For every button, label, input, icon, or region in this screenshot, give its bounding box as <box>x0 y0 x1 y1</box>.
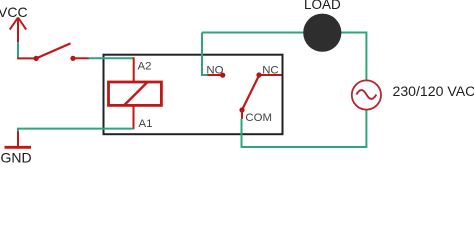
svg-text:A1: A1 <box>139 118 153 130</box>
relay pin NO <box>208 74 222 76</box>
wire A1 to GND <box>18 129 134 133</box>
relay switch lever COM to NC <box>242 76 259 111</box>
wire switch to relay A2 <box>89 57 134 59</box>
svg-text:COM: COM <box>245 112 272 124</box>
VCC power arrow symbol <box>10 18 26 44</box>
switch S1 left pin <box>17 57 36 59</box>
relay coil L1 <box>109 82 162 105</box>
wire VCC arrow to switch <box>17 42 19 58</box>
svg-text:NC: NC <box>262 65 278 77</box>
switch S1 lever <box>36 43 70 58</box>
relay pin A2 lead <box>133 57 135 83</box>
AC source sine wave <box>356 90 376 99</box>
AC source V1 circle <box>352 80 381 109</box>
svg-text:230/120 VAC: 230/120 VAC <box>393 83 474 99</box>
wire COM to AC source bottom <box>242 110 367 148</box>
svg-text:GND: GND <box>1 150 32 166</box>
LOAD lamp (filled circle) <box>303 14 341 52</box>
switch S1 right junction dot <box>70 56 75 61</box>
svg-text:NO: NO <box>206 65 223 77</box>
ground symbol stem <box>17 132 19 148</box>
svg-text:A2: A2 <box>138 61 152 73</box>
NC contact dot <box>256 72 261 77</box>
svg-text:LOAD: LOAD <box>304 0 341 12</box>
svg-text:VCC: VCC <box>0 4 28 20</box>
ground symbol bar <box>5 146 32 149</box>
NO contact dot <box>220 73 225 78</box>
relay pin COM lead <box>241 110 243 119</box>
wire top rail to AC source (through LOAD) <box>202 33 366 82</box>
relay pin NC <box>259 74 282 76</box>
relay pin A1 lead <box>133 105 135 129</box>
switch S1 right pin <box>73 57 89 59</box>
relay box U1 outline <box>104 55 283 135</box>
switch S1 left junction dot <box>34 56 39 61</box>
wire NO riser to top rail <box>202 33 208 76</box>
COM contact dot <box>239 107 244 112</box>
